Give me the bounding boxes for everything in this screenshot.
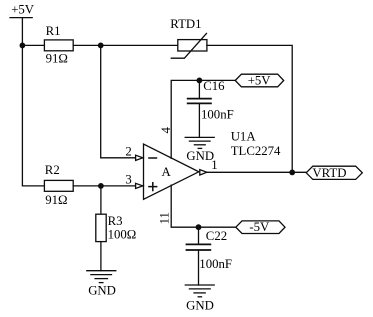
svg-text:GND: GND [186,298,214,312]
op-amp minus sign [148,157,157,159]
junction at R1 right / pin2 riser [98,43,104,49]
wire: pin 4 up and right to +5V [171,80,235,158]
wire: RTD1 to right rail, down to output node [207,45,292,172]
capacitor C16 [188,80,211,137]
net flag VRTD [306,166,362,179]
svg-text:C22: C22 [206,229,227,243]
svg-text:4: 4 [159,127,173,134]
svg-text:R3: R3 [108,214,123,228]
junction at output / right rail [289,170,295,176]
op-amp plus sign [148,182,157,191]
wire: R1 to RTD1 [73,44,178,46]
svg-text:A: A [162,165,172,179]
svg-text:GND: GND [186,149,214,163]
ground under R3 [87,271,116,283]
svg-text:100Ω: 100Ω [108,228,137,242]
wire: pin 11 down and right to -5V [171,185,236,227]
op-amp U1A [144,144,199,199]
wire: R3 to ground [100,242,102,271]
svg-text:R2: R2 [45,163,60,177]
power +5V bar (top-left) [10,17,32,19]
wire: op-amp output to VRTD [207,171,307,173]
wire: +5V bar down left rail to R2 [22,18,44,186]
svg-text:GND: GND [88,283,116,297]
pin 2 input arrow [136,155,143,160]
ground under C16 [185,137,214,148]
svg-text:100nF: 100nF [201,108,234,122]
power flag -5V [236,221,285,234]
svg-text:91Ω: 91Ω [46,52,68,66]
resistor R2 [44,180,73,191]
junction at R2 right / R3 [98,183,104,189]
svg-text:2: 2 [125,145,131,159]
resistor RTD1 [171,33,207,58]
ground under C22 [185,285,214,297]
svg-text:C16: C16 [203,79,225,93]
svg-text:100nF: 100nF [199,257,232,271]
svg-text:RTD1: RTD1 [170,17,201,31]
capacitor C22 [187,227,211,285]
svg-text:VRTD: VRTD [312,166,346,180]
svg-text:-5V: -5V [249,220,270,234]
svg-text:R1: R1 [46,24,61,38]
junction at left rail / R1 [20,43,26,49]
svg-text:U1A: U1A [231,129,257,143]
resistor R3 [96,214,106,241]
svg-text:11: 11 [158,212,172,224]
svg-text:TLC2274: TLC2274 [231,144,281,158]
svg-text:+5V: +5V [248,73,272,87]
wire: R2 to op-amp pin 3 [73,185,136,187]
resistor R1 [44,40,73,51]
junction at C16 top [197,78,203,84]
pin 1 output arrow [200,170,207,175]
wire: node at R1 right down to op-amp pin 2 [101,45,136,157]
pin 3 input arrow [136,183,143,188]
svg-text:3: 3 [125,173,131,187]
svg-text:91Ω: 91Ω [45,193,67,207]
wire: pin3 node down to R3 [100,186,102,214]
power flag +5V [235,74,284,87]
wire: left rail to R1 [22,44,44,46]
svg-text:1: 1 [211,158,217,172]
svg-text:+5V: +5V [11,3,35,17]
junction at C22 top [196,224,202,230]
